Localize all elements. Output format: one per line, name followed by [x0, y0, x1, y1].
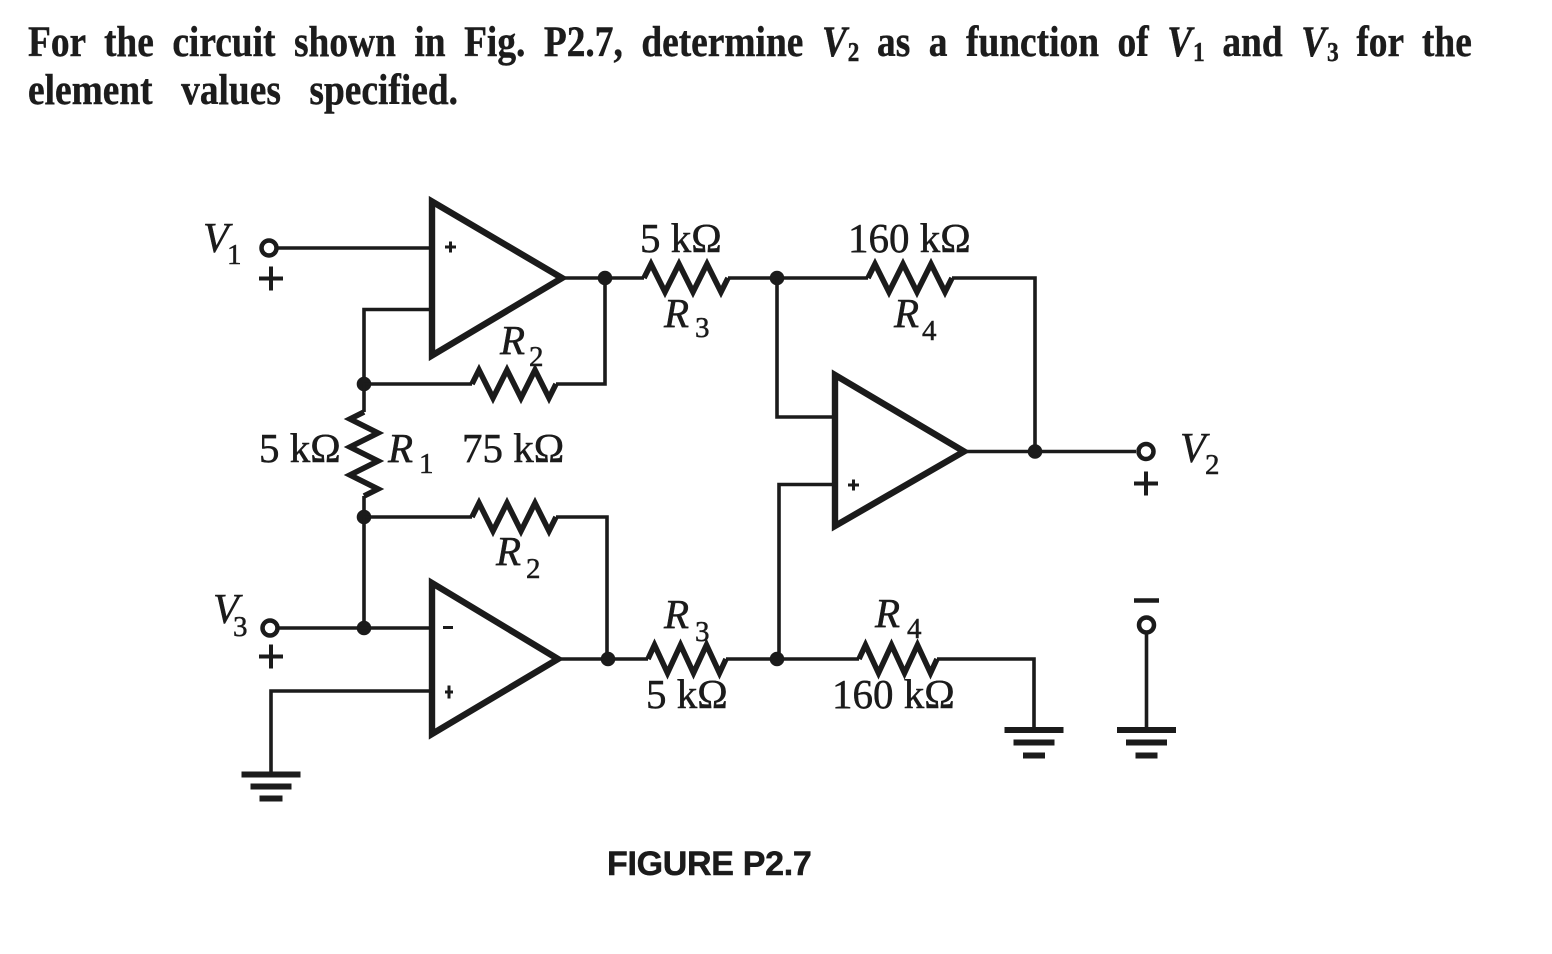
svg-text:160 kΩ: 160 kΩ [832, 671, 955, 717]
wire U1 output [562, 276, 644, 280]
svg-text:R: R [893, 290, 919, 336]
wire V2 minus terminal to ground G3 [1145, 633, 1149, 727]
terminal V2 minus [1139, 618, 1154, 633]
svg-text:75 kΩ: 75 kΩ [462, 425, 564, 471]
wire R3 to node A [728, 276, 868, 280]
resistor R1 (wire from feedback node) [362, 384, 366, 412]
svg-text:R: R [874, 590, 900, 636]
resistor R3 (top) [644, 264, 728, 292]
svg-text:5 kΩ: 5 kΩ [646, 671, 728, 717]
op-amp U2 [432, 583, 558, 734]
svg-text:160 kΩ: 160 kΩ [848, 215, 971, 261]
U3 + input mark [848, 480, 859, 491]
resistor R4 (bottom) [859, 645, 937, 673]
node U1 feedback junction [357, 377, 372, 392]
wire U3 output to terminal V2 [965, 450, 1136, 454]
terminal V3 [263, 621, 278, 636]
node on V3 wire [357, 621, 372, 636]
ground G3 [1117, 727, 1176, 733]
wire U2 noninverting input to ground [271, 691, 432, 772]
svg-text:R: R [663, 290, 689, 336]
problem statement line 1 [28, 18, 1472, 67]
svg-text:2: 2 [1205, 449, 1220, 481]
resistor R3 (bottom) [648, 645, 726, 673]
node A (R3/R4/U3 inverting) [770, 271, 785, 286]
wire R1 node down to V3 wire [362, 517, 366, 628]
svg-text:3: 3 [695, 312, 710, 344]
V1 plus sign [259, 267, 283, 291]
resistor R4 (top) [868, 264, 952, 292]
V3 plus sign [259, 645, 283, 669]
wire R4 to ground G2 [937, 659, 1034, 727]
node B (R3/R4/U3 noninverting) [770, 652, 785, 667]
terminal V1 [262, 241, 277, 256]
svg-text:FIGURE P2.7: FIGURE P2.7 [607, 845, 812, 883]
svg-text:4: 4 [922, 315, 937, 347]
terminal V2 [1139, 444, 1154, 459]
terminal V2 minus bar [1134, 598, 1159, 603]
svg-text:2: 2 [526, 553, 541, 585]
svg-text:R: R [387, 425, 413, 471]
wire R1 to lower node [362, 496, 366, 517]
resistor R2 (top) [472, 370, 556, 398]
V2 plus sign [1134, 472, 1158, 496]
node U1 output [598, 271, 613, 286]
op-amp U3 [835, 375, 964, 526]
svg-text:5 kΩ: 5 kΩ [640, 215, 722, 261]
resistor R2 (bottom) [472, 503, 556, 531]
svg-text:3: 3 [695, 616, 710, 648]
svg-text:R: R [495, 528, 521, 574]
svg-text:3: 3 [233, 611, 248, 643]
wire U2 output [558, 657, 648, 661]
ground G1 (V3 source) [242, 772, 301, 778]
svg-text:5 kΩ: 5 kΩ [259, 425, 341, 471]
svg-text:4: 4 [907, 613, 922, 645]
node R1 bottom junction [357, 510, 372, 525]
svg-text:R: R [499, 317, 525, 363]
wire R2 to U1 output node [556, 278, 605, 384]
svg-text:1: 1 [227, 239, 242, 271]
wire node A to U3 inverting input [777, 278, 836, 417]
svg-text:2: 2 [529, 341, 544, 373]
node U3 output [1028, 444, 1043, 459]
wire V1 to U1 noninverting input [277, 246, 432, 250]
op-amp U1 [432, 202, 562, 356]
wire R2 to U2 output node [556, 517, 607, 659]
node U2 output [601, 652, 616, 667]
svg-text:R: R [663, 591, 689, 637]
svg-text:1: 1 [419, 448, 434, 480]
U2 - input mark [443, 626, 453, 629]
wire V3 to U2 inverting input [278, 626, 432, 630]
wire U1 inverting input [364, 310, 432, 385]
wire feedback node to R2 [364, 382, 472, 386]
wire node to R2 (bottom) [364, 515, 472, 519]
U1 + input mark [445, 242, 456, 253]
problem statement line 2 [28, 66, 458, 115]
ground G2 [1005, 727, 1064, 733]
wire R3 to node B [726, 657, 859, 661]
wire R4 to U3 output node [952, 278, 1035, 451]
wire U3 noninverting input [779, 485, 836, 660]
U2 + input mark [445, 686, 453, 699]
resistor R1 zigzag [350, 412, 378, 496]
